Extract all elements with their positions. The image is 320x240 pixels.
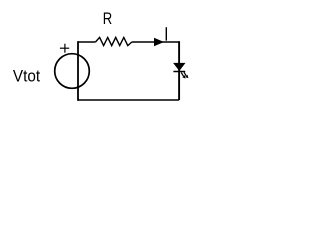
- current arrow I: [154, 38, 163, 45]
- voltage source V1 circle: [55, 54, 90, 89]
- wire bottom rail: [78, 99, 179, 101]
- LED D1 cathode bar: [173, 71, 185, 73]
- wire left rail through source: [77, 41, 79, 101]
- LED emission arrow 2: [184, 72, 188, 78]
- svg-text:R: R: [103, 10, 112, 29]
- resistor R: [96, 37, 132, 45]
- LED D1 triangle: [174, 63, 185, 70]
- plus sign: [60, 44, 69, 53]
- label I: [165, 27, 167, 40]
- LED emission arrow 1: [181, 73, 185, 79]
- wire right rail: [178, 41, 180, 100]
- wire top rail right: [132, 41, 179, 43]
- svg-text:Vtot: Vtot: [13, 67, 41, 86]
- wire top rail: [78, 41, 96, 43]
